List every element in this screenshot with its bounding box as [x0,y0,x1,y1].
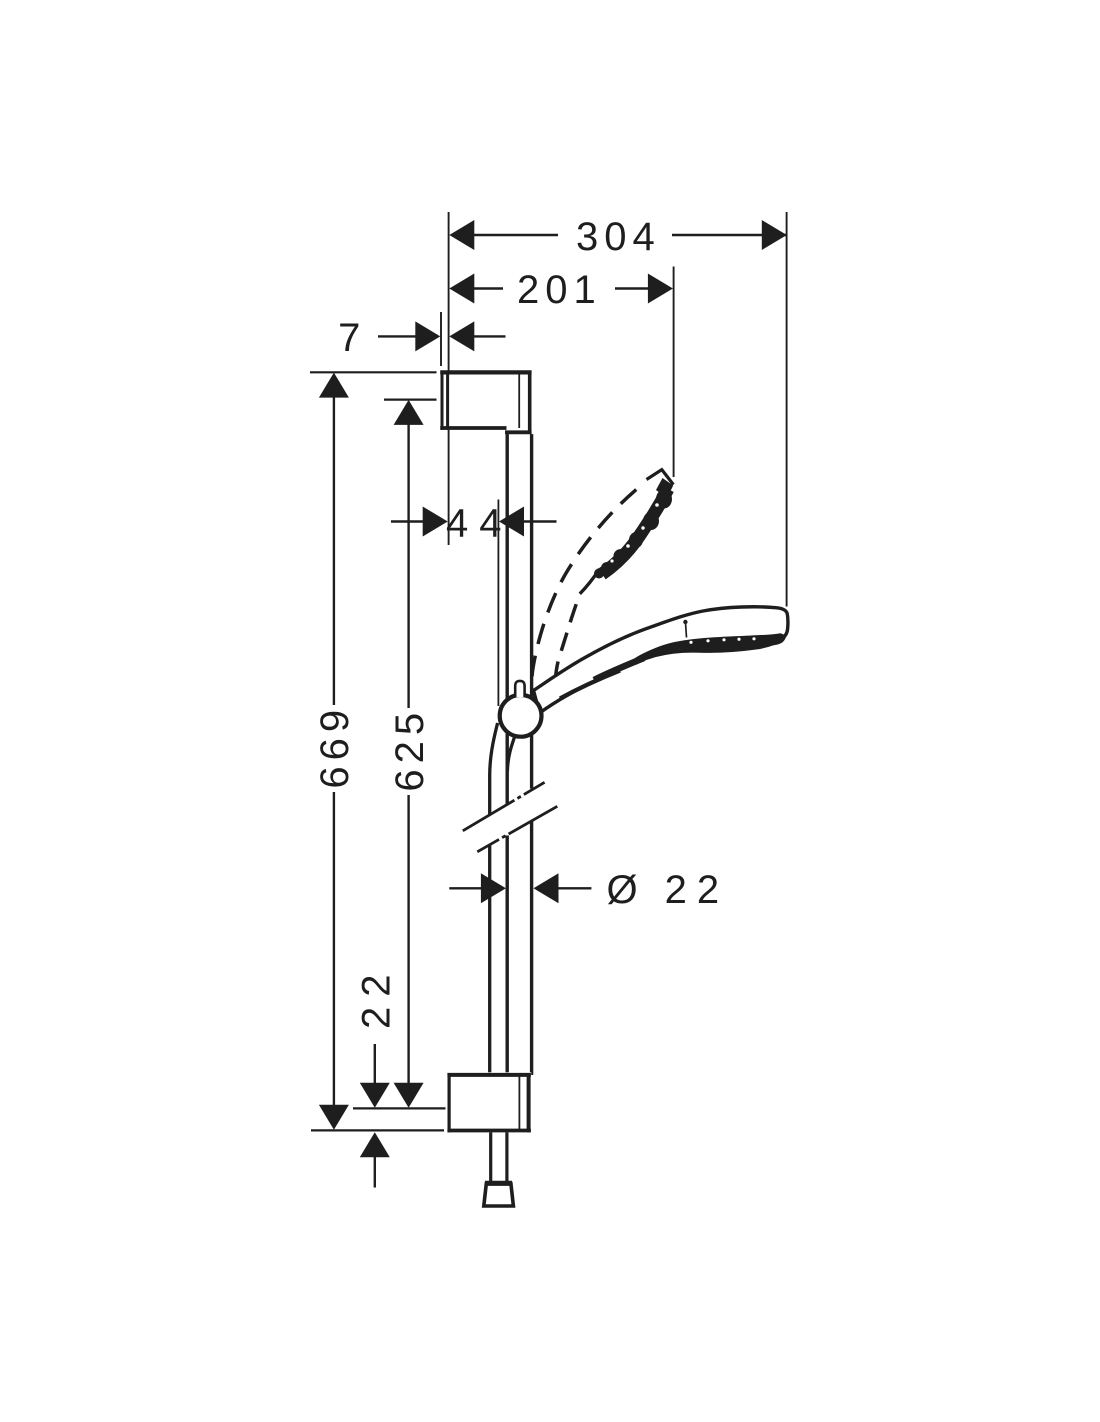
svg-text:669: 669 [313,704,357,789]
svg-text:22: 22 [355,965,399,1030]
svg-text:7: 7 [338,316,366,360]
svg-text:304: 304 [576,215,661,259]
svg-text:201: 201 [517,268,602,312]
svg-text:44: 44 [446,502,513,546]
svg-text:625: 625 [388,707,432,792]
svg-text:Ø: Ø [606,868,643,912]
svg-text:22: 22 [665,868,730,912]
